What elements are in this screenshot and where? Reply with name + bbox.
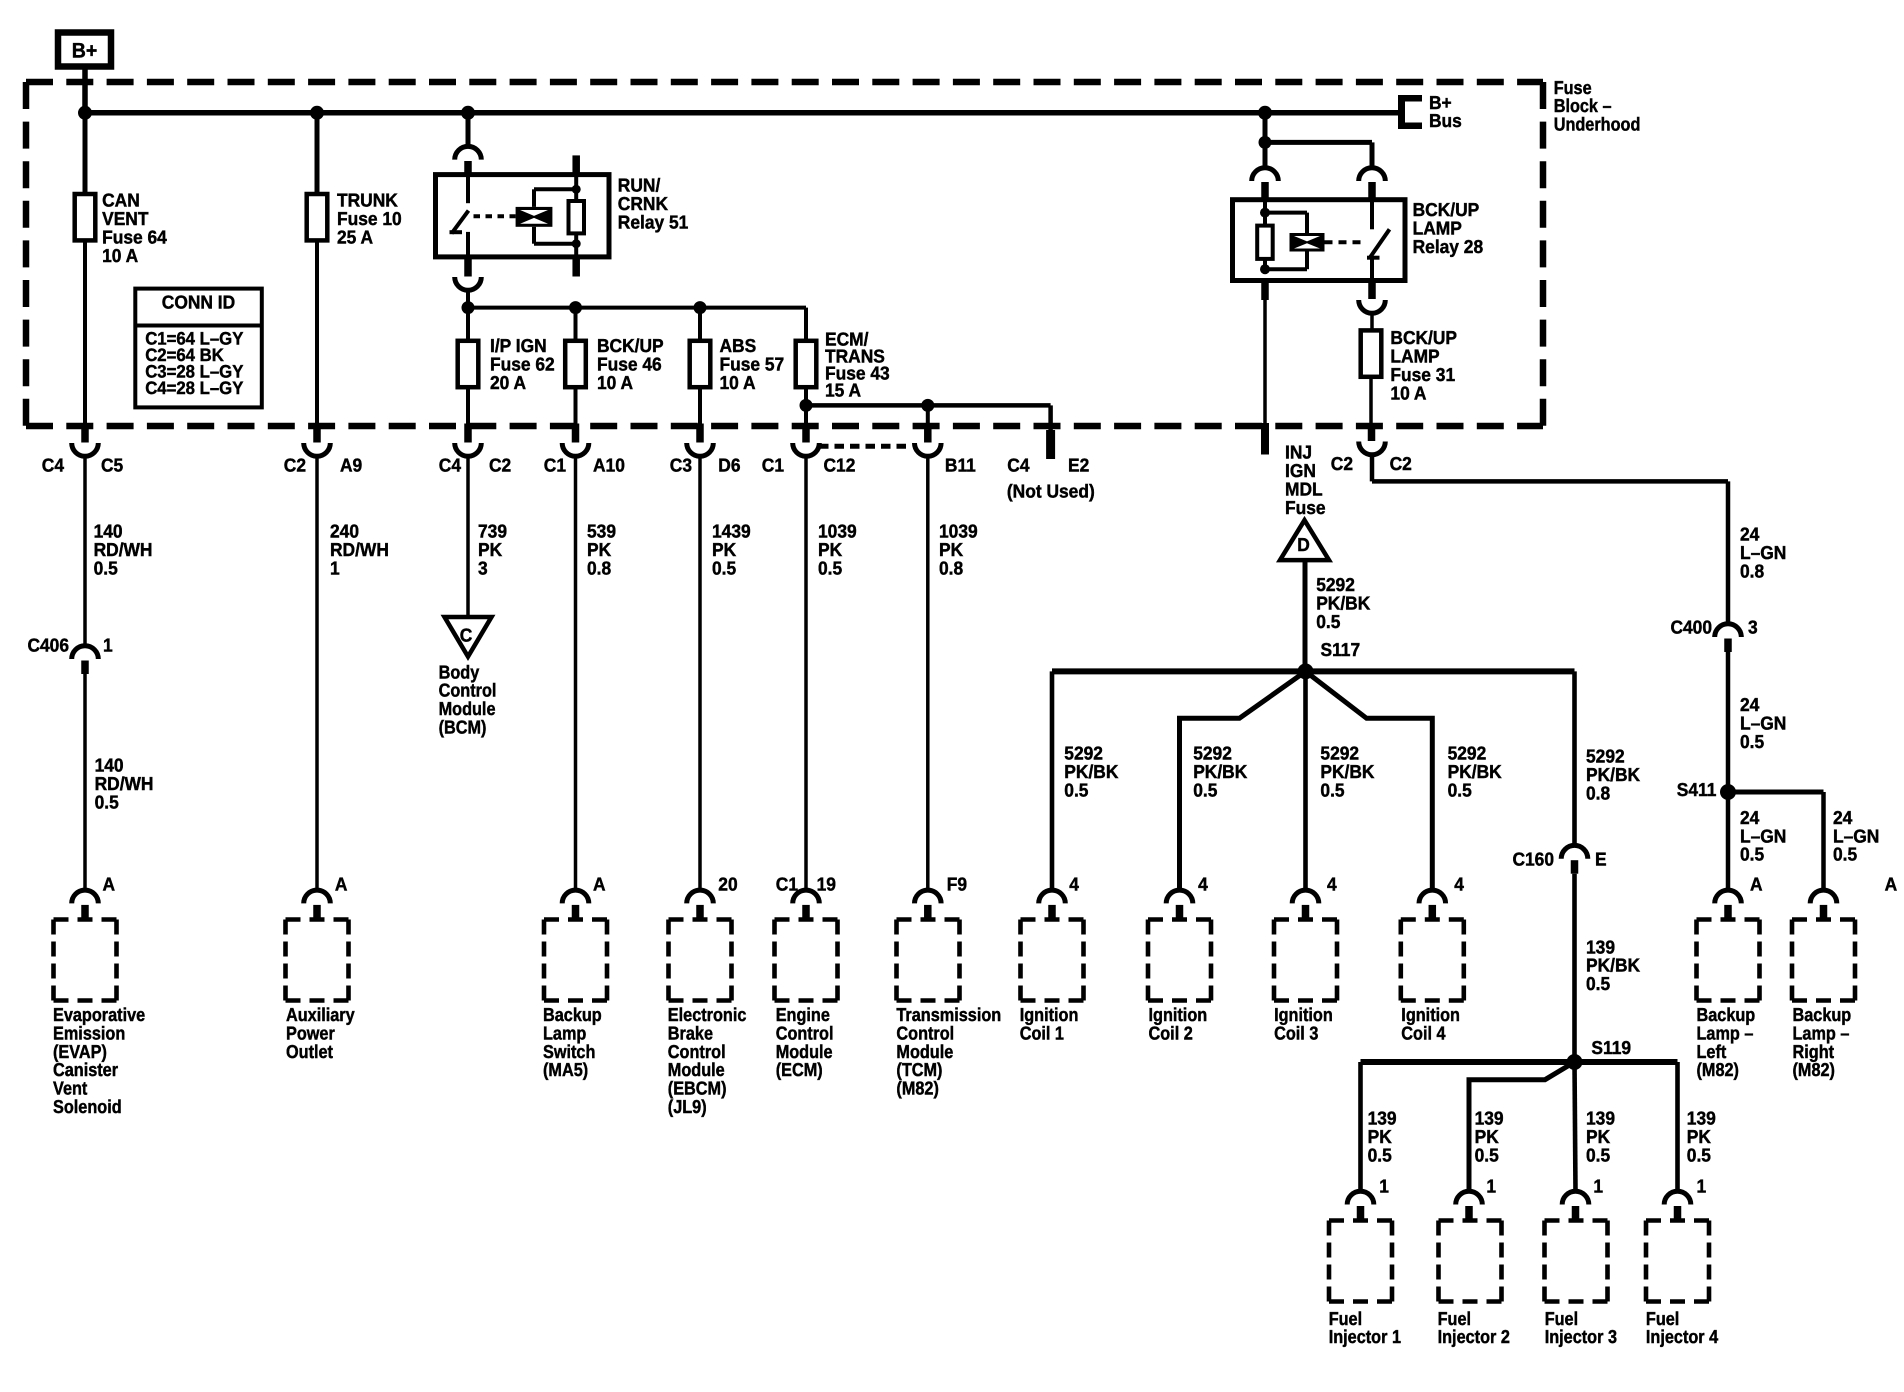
svg-text:0.5: 0.5	[1740, 731, 1764, 752]
svg-text:Relay 28: Relay 28	[1413, 236, 1484, 257]
svg-text:CONN ID: CONN ID	[162, 292, 235, 313]
svg-text:0.5: 0.5	[1687, 1144, 1711, 1165]
svg-text:0.8: 0.8	[939, 557, 963, 578]
svg-text:C406: C406	[27, 635, 69, 656]
svg-text:C4: C4	[439, 455, 462, 476]
svg-text:10 A: 10 A	[1390, 382, 1426, 403]
svg-text:10 A: 10 A	[597, 372, 633, 393]
svg-text:Relay 51: Relay 51	[618, 211, 689, 232]
svg-text:(M82): (M82)	[896, 1078, 938, 1099]
svg-text:C1: C1	[762, 455, 784, 476]
svg-text:19: 19	[817, 873, 836, 894]
svg-text:C1: C1	[776, 873, 798, 894]
svg-text:15 A: 15 A	[825, 379, 861, 400]
svg-text:0.5: 0.5	[1833, 844, 1857, 865]
svg-text:D6: D6	[718, 455, 740, 476]
svg-text:A: A	[593, 873, 606, 894]
svg-text:(ECM): (ECM)	[776, 1059, 823, 1080]
svg-text:0.5: 0.5	[1586, 973, 1610, 994]
svg-text:0.5: 0.5	[818, 557, 842, 578]
svg-text:0.5: 0.5	[1193, 779, 1217, 800]
svg-text:20 A: 20 A	[490, 372, 526, 393]
svg-text:(Not Used): (Not Used)	[1007, 480, 1095, 501]
svg-text:C4: C4	[42, 455, 65, 476]
svg-text:Bus: Bus	[1429, 110, 1462, 131]
svg-text:A: A	[1750, 873, 1763, 894]
svg-text:25 A: 25 A	[337, 226, 373, 247]
svg-text:0.8: 0.8	[1740, 561, 1764, 582]
svg-text:1: 1	[1379, 1176, 1389, 1197]
svg-text:S411: S411	[1677, 779, 1717, 800]
svg-text:S119: S119	[1591, 1037, 1631, 1058]
svg-text:0.5: 0.5	[1064, 779, 1088, 800]
svg-text:Injector 4: Injector 4	[1646, 1326, 1719, 1347]
svg-text:C160: C160	[1512, 849, 1554, 870]
svg-text:A9: A9	[340, 455, 362, 476]
svg-text:C2: C2	[489, 455, 511, 476]
svg-text:1: 1	[103, 635, 113, 656]
svg-text:B+: B+	[72, 40, 98, 63]
svg-text:(JL9): (JL9)	[668, 1096, 707, 1117]
svg-text:4: 4	[1069, 873, 1079, 894]
svg-text:Coil 4: Coil 4	[1401, 1022, 1446, 1043]
svg-text:C4: C4	[1007, 455, 1030, 476]
svg-text:4: 4	[1454, 873, 1464, 894]
svg-text:0.5: 0.5	[94, 557, 118, 578]
svg-text:A: A	[335, 873, 348, 894]
svg-text:C2: C2	[284, 455, 306, 476]
svg-text:0.5: 0.5	[1320, 779, 1344, 800]
svg-text:(M82): (M82)	[1793, 1059, 1835, 1080]
svg-text:Underhood: Underhood	[1554, 114, 1641, 135]
svg-text:(M82): (M82)	[1697, 1059, 1739, 1080]
svg-text:0.8: 0.8	[1586, 782, 1610, 803]
svg-text:Coil 1: Coil 1	[1020, 1022, 1064, 1043]
svg-text:C12: C12	[824, 455, 856, 476]
svg-text:Outlet: Outlet	[286, 1041, 333, 1062]
svg-text:D: D	[1297, 534, 1310, 555]
svg-text:0.5: 0.5	[1740, 844, 1764, 865]
svg-text:Fuse: Fuse	[1285, 497, 1326, 518]
svg-text:E: E	[1595, 849, 1607, 870]
svg-text:0.5: 0.5	[1475, 1144, 1499, 1165]
svg-text:C2: C2	[1331, 453, 1353, 474]
svg-text:0.5: 0.5	[1586, 1144, 1610, 1165]
svg-text:E2: E2	[1068, 455, 1089, 476]
svg-text:3: 3	[1748, 617, 1758, 638]
svg-text:C3: C3	[670, 455, 692, 476]
svg-text:4: 4	[1198, 873, 1208, 894]
svg-text:1: 1	[1486, 1176, 1496, 1197]
svg-text:1: 1	[330, 557, 340, 578]
svg-text:Injector 3: Injector 3	[1545, 1326, 1617, 1347]
svg-text:(BCM): (BCM)	[439, 717, 487, 738]
svg-text:C: C	[460, 625, 473, 646]
svg-text:10 A: 10 A	[102, 245, 138, 266]
svg-text:1: 1	[1697, 1176, 1707, 1197]
svg-text:Injector 1: Injector 1	[1329, 1326, 1401, 1347]
svg-text:S117: S117	[1321, 639, 1361, 660]
svg-text:10 A: 10 A	[720, 372, 756, 393]
svg-text:(MA5): (MA5)	[543, 1059, 588, 1080]
svg-text:C400: C400	[1670, 617, 1712, 638]
svg-text:0.5: 0.5	[712, 557, 736, 578]
svg-text:0.8: 0.8	[587, 557, 611, 578]
svg-text:A: A	[103, 873, 116, 894]
svg-text:A10: A10	[593, 455, 625, 476]
svg-text:Coil 2: Coil 2	[1149, 1022, 1193, 1043]
svg-text:3: 3	[478, 557, 488, 578]
svg-text:C1: C1	[544, 455, 566, 476]
svg-text:4: 4	[1327, 873, 1337, 894]
svg-text:1: 1	[1593, 1176, 1603, 1197]
svg-text:0.5: 0.5	[95, 791, 119, 812]
svg-text:0.5: 0.5	[1448, 779, 1472, 800]
svg-text:Solenoid: Solenoid	[53, 1096, 122, 1117]
svg-text:Injector 2: Injector 2	[1438, 1326, 1510, 1347]
svg-text:A: A	[1885, 873, 1898, 894]
svg-text:Coil 3: Coil 3	[1274, 1022, 1318, 1043]
svg-text:20: 20	[718, 873, 737, 894]
svg-text:0.5: 0.5	[1368, 1144, 1392, 1165]
svg-text:C5: C5	[101, 455, 123, 476]
svg-text:B11: B11	[945, 455, 976, 476]
svg-text:C2: C2	[1390, 453, 1412, 474]
svg-text:F9: F9	[947, 873, 967, 894]
svg-text:C4=28 L–GY: C4=28 L–GY	[145, 378, 243, 398]
svg-text:0.5: 0.5	[1316, 611, 1340, 632]
